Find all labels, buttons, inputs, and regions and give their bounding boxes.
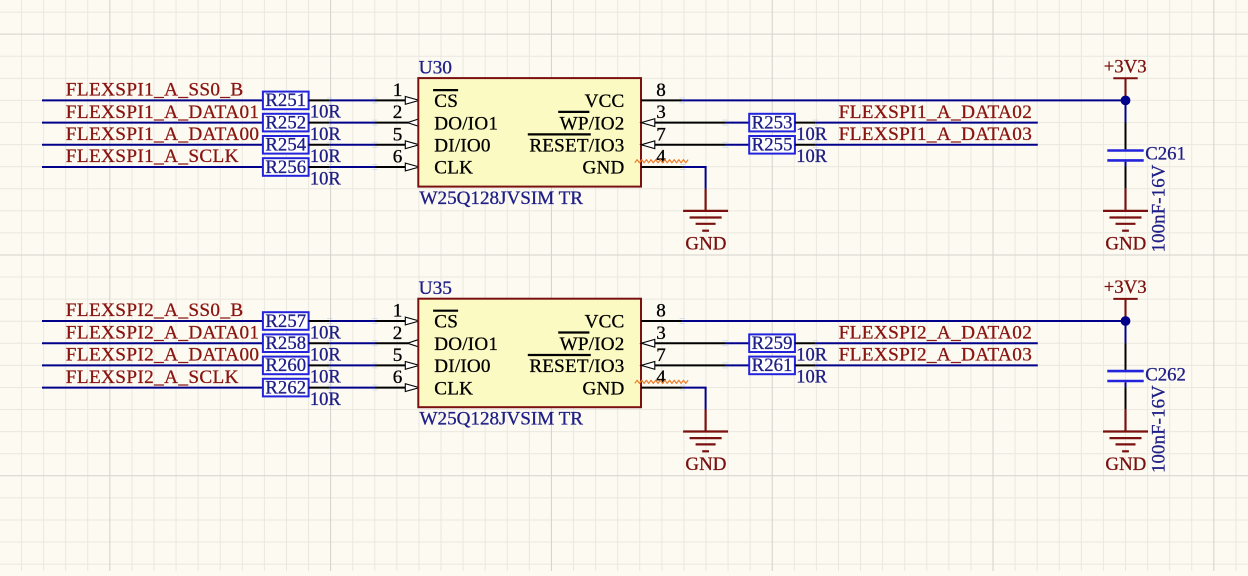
pin of R253 — [795, 122, 816, 124]
svg-text:1: 1 — [393, 301, 403, 322]
resistor R255 10R — [749, 136, 795, 154]
connection tick marks — [327, 142, 332, 147]
pin 6 of U35 — [375, 387, 406, 389]
svg-text:6: 6 — [393, 367, 403, 388]
input pin arrow pin 5 — [405, 141, 419, 149]
svg-text:10R: 10R — [310, 103, 342, 123]
input arrow pin 7 — [641, 362, 655, 370]
pin 2 of C261 — [1125, 167, 1127, 189]
svg-text:GND: GND — [583, 158, 625, 179]
pin 2 of C262 — [1125, 387, 1127, 409]
pin 1 of C262 — [1125, 343, 1127, 370]
pin of R252 — [309, 122, 330, 124]
input pin arrow pin 6 — [405, 384, 419, 392]
wire to net label — [815, 364, 1037, 366]
pin of R260 — [309, 364, 330, 366]
svg-text:FLEXSPI2_A_DATA00: FLEXSPI2_A_DATA00 — [66, 345, 260, 366]
svg-text:10R: 10R — [310, 147, 342, 167]
svg-text:FLEXSPI1_A_SS0_B: FLEXSPI1_A_SS0_B — [66, 80, 244, 101]
pin of R251 — [309, 99, 330, 101]
pin 6 of U30 — [375, 166, 406, 168]
wire — [330, 364, 375, 366]
wire — [683, 387, 707, 389]
resistor R259 10R — [749, 334, 795, 352]
wire — [330, 122, 375, 124]
svg-text:VCC: VCC — [585, 312, 625, 333]
svg-text:W25Q128JVSIM TR: W25Q128JVSIM TR — [420, 408, 584, 429]
svg-text:CS: CS — [434, 312, 458, 333]
svg-text:R258: R258 — [265, 333, 306, 354]
ground symbol GND — [683, 189, 728, 231]
resistor R256 10R — [263, 158, 309, 176]
pin of R254 — [309, 144, 330, 146]
pin of R262 — [309, 387, 330, 389]
pin 5 of U30 — [375, 144, 406, 146]
svg-text:10R: 10R — [310, 323, 342, 343]
capacitor C261 100nF-16V — [1107, 149, 1143, 152]
svg-text:R259: R259 — [752, 333, 793, 354]
pin 5 of U35 — [375, 364, 406, 366]
wire stub — [1125, 162, 1127, 167]
svg-text:2: 2 — [393, 323, 403, 344]
svg-text:+3V3: +3V3 — [1104, 57, 1147, 78]
input pin arrow pin 6 — [405, 163, 419, 171]
svg-text:100nF-16V: 100nF-16V — [1149, 164, 1170, 252]
svg-text:WP/IO2: WP/IO2 — [560, 334, 625, 355]
connection tick marks — [722, 142, 727, 147]
svg-text:W25Q128JVSIM TR: W25Q128JVSIM TR — [420, 188, 584, 209]
wire stub — [1125, 382, 1127, 387]
svg-text:DI/IO0: DI/IO0 — [434, 136, 490, 157]
svg-text:CLK: CLK — [434, 158, 473, 179]
connection tick marks — [327, 363, 332, 368]
svg-text:U35: U35 — [419, 278, 452, 299]
svg-text:10R: 10R — [796, 147, 828, 167]
svg-text:FLEXSPI2_A_DATA01: FLEXSPI2_A_DATA01 — [66, 322, 260, 343]
svg-text:FLEXSPI1_A_DATA03: FLEXSPI1_A_DATA03 — [839, 124, 1033, 145]
resistor R262 10R — [263, 379, 309, 397]
wire FLEXSPI2_A_SS0_B to R257 — [42, 320, 263, 322]
resistor R251 10R — [263, 92, 309, 110]
IC U35 W25Q128JVSIM flash — [418, 299, 641, 408]
ground symbol GND — [683, 410, 728, 452]
no-ERC squiggle marker on pin 4 — [635, 380, 688, 383]
svg-text:100nF-16V: 100nF-16V — [1149, 385, 1170, 473]
wire — [330, 166, 375, 168]
connection tick mark — [680, 165, 685, 170]
pin of R258 — [309, 342, 330, 344]
svg-text:10R: 10R — [310, 368, 342, 388]
input arrow pin 7 — [641, 141, 655, 149]
svg-text:R260: R260 — [265, 355, 306, 376]
svg-text:C262: C262 — [1145, 364, 1186, 385]
wire junction to capacitor — [1125, 100, 1127, 122]
svg-text:8: 8 — [656, 80, 666, 101]
svg-text:R262: R262 — [265, 377, 306, 398]
junction dot — [1121, 96, 1131, 106]
connection tick marks — [327, 165, 332, 170]
svg-text:C261: C261 — [1145, 144, 1186, 165]
svg-text:5: 5 — [393, 345, 403, 366]
connection tick mark — [680, 385, 685, 390]
svg-text:RESET/IO3: RESET/IO3 — [529, 356, 624, 377]
svg-text:R261: R261 — [752, 355, 793, 376]
svg-text:FLEXSPI2_A_DATA02: FLEXSPI2_A_DATA02 — [839, 322, 1033, 343]
connection tick marks — [722, 363, 727, 368]
svg-text:DO/IO1: DO/IO1 — [434, 113, 498, 134]
svg-text:FLEXSPI1_A_DATA01: FLEXSPI1_A_DATA01 — [66, 102, 260, 123]
wire to net label — [815, 342, 1037, 344]
capacitor C262 100nF-16V — [1107, 370, 1143, 373]
svg-text:7: 7 — [656, 124, 666, 145]
input pin arrow pin 5 — [405, 362, 419, 370]
pin of R259 — [795, 342, 816, 344]
input pin arrow pin 1 — [405, 317, 419, 325]
svg-text:FLEXSPI2_A_SCLK: FLEXSPI2_A_SCLK — [66, 367, 239, 388]
svg-text:7: 7 — [656, 345, 666, 366]
input pin arrow pin 1 — [405, 97, 419, 105]
wire junction to capacitor — [1125, 321, 1127, 343]
resistor R261 10R — [749, 357, 795, 375]
svg-text:CLK: CLK — [434, 378, 473, 399]
wire FLEXSPI1_A_SS0_B to R251 — [42, 99, 263, 101]
wire FLEXSPI1_A_SCLK to R256 — [42, 166, 263, 168]
pin 2 of U30 — [375, 122, 408, 124]
pin of R261 — [795, 364, 816, 366]
wire FLEXSPI2_A_SCLK to R262 — [42, 387, 263, 389]
pin line — [655, 144, 725, 146]
pin line — [655, 342, 725, 344]
wire down to ground — [705, 388, 707, 410]
svg-text:FLEXSPI1_A_SCLK: FLEXSPI1_A_SCLK — [66, 146, 239, 167]
resistor R254 10R — [263, 136, 309, 154]
wire — [330, 387, 375, 389]
pin 8 VCC — [641, 99, 682, 101]
wire FLEXSPI2_A_DATA01 to R258 — [42, 342, 263, 344]
svg-text:VCC: VCC — [585, 91, 625, 112]
svg-text:1: 1 — [393, 80, 403, 101]
svg-text:R251: R251 — [265, 90, 306, 111]
wire to net label — [815, 122, 1037, 124]
svg-text:4: 4 — [656, 367, 666, 388]
pin 1 of C261 — [1125, 123, 1127, 150]
svg-text:2: 2 — [393, 102, 403, 123]
connection tick marks — [327, 120, 332, 125]
svg-text:R254: R254 — [265, 135, 306, 156]
svg-text:3: 3 — [656, 323, 666, 344]
svg-text:CS: CS — [434, 91, 458, 112]
svg-text:4: 4 — [656, 147, 666, 168]
connection tick mark — [679, 98, 684, 103]
connection tick marks — [327, 385, 332, 390]
svg-text:10R: 10R — [310, 346, 342, 366]
svg-text:GND: GND — [685, 454, 726, 475]
IC U30 W25Q128JVSIM flash — [418, 78, 641, 187]
svg-text:WP/IO2: WP/IO2 — [560, 113, 625, 134]
pin 8 VCC — [641, 320, 682, 322]
pin 4 GND — [641, 166, 683, 168]
svg-text:FLEXSPI1_A_DATA00: FLEXSPI1_A_DATA00 — [66, 124, 260, 145]
connection tick marks — [327, 319, 332, 324]
svg-text:R255: R255 — [752, 135, 793, 156]
svg-text:R253: R253 — [752, 112, 793, 133]
pin of R255 — [795, 144, 816, 146]
svg-text:10R: 10R — [796, 125, 828, 145]
svg-text:RESET/IO3: RESET/IO3 — [529, 136, 624, 157]
svg-text:10R: 10R — [796, 368, 828, 388]
svg-text:10R: 10R — [310, 390, 342, 410]
wire FLEXSPI2_A_DATA00 to R260 — [42, 364, 263, 366]
svg-text:FLEXSPI2_A_SS0_B: FLEXSPI2_A_SS0_B — [66, 300, 244, 321]
svg-text:GND: GND — [1105, 454, 1146, 475]
svg-text:R257: R257 — [265, 311, 306, 332]
svg-text:R252: R252 — [265, 112, 306, 133]
pin line — [655, 122, 725, 124]
svg-text:GND: GND — [583, 378, 625, 399]
connection tick marks — [722, 120, 727, 125]
pin 1 of U30 — [375, 99, 406, 101]
svg-text:DO/IO1: DO/IO1 — [434, 334, 498, 355]
resistor R257 10R — [263, 312, 309, 330]
svg-text:8: 8 — [656, 301, 666, 322]
junction dot — [1121, 316, 1131, 326]
svg-text:FLEXSPI2_A_DATA03: FLEXSPI2_A_DATA03 — [839, 345, 1033, 366]
resistor R258 10R — [263, 334, 309, 352]
resistor R253 10R — [749, 114, 795, 132]
svg-text:+3V3: +3V3 — [1104, 277, 1147, 298]
svg-text:3: 3 — [656, 102, 666, 123]
svg-text:10R: 10R — [796, 346, 828, 366]
connection tick marks — [722, 341, 727, 346]
svg-text:10R: 10R — [310, 125, 342, 145]
wire down to ground — [705, 167, 707, 189]
svg-text:10R: 10R — [310, 169, 342, 189]
svg-text:5: 5 — [393, 124, 403, 145]
wire FLEXSPI1_A_DATA00 to R254 — [42, 144, 263, 146]
svg-text:GND: GND — [1105, 233, 1146, 254]
connection tick marks — [327, 98, 332, 103]
wire — [330, 342, 375, 344]
svg-text:R256: R256 — [265, 157, 306, 178]
wire — [725, 342, 749, 344]
svg-text:U30: U30 — [419, 58, 452, 79]
wire — [725, 144, 749, 146]
wire — [683, 166, 707, 168]
wire VCC to +3V3 rail — [682, 320, 1125, 322]
input arrow pin 3 — [641, 339, 655, 347]
pin 2 of U35 — [375, 342, 408, 344]
output pin arrow pin 2 — [407, 339, 419, 347]
input arrow pin 3 — [641, 119, 655, 127]
wire — [725, 364, 749, 366]
pin of R257 — [309, 320, 330, 322]
no-ERC squiggle marker on pin 4 — [635, 160, 688, 163]
wire VCC to +3V3 rail — [682, 99, 1125, 101]
resistor R260 10R — [263, 357, 309, 375]
wire to net label — [815, 144, 1037, 146]
pin line — [655, 364, 725, 366]
wire — [330, 144, 375, 146]
wire — [330, 320, 375, 322]
ground symbol GND under capacitor — [1103, 189, 1148, 231]
svg-text:FLEXSPI1_A_DATA02: FLEXSPI1_A_DATA02 — [839, 102, 1033, 123]
wire — [725, 122, 749, 124]
wire — [330, 99, 375, 101]
resistor R252 10R — [263, 114, 309, 132]
pin of R256 — [309, 166, 330, 168]
connection tick mark — [679, 319, 684, 324]
pin 4 GND — [641, 387, 683, 389]
connection tick marks — [327, 341, 332, 346]
svg-text:6: 6 — [393, 147, 403, 168]
ground symbol GND under capacitor — [1103, 409, 1148, 451]
svg-text:GND: GND — [685, 233, 726, 254]
output pin arrow pin 2 — [407, 119, 419, 127]
wire FLEXSPI1_A_DATA01 to R252 — [42, 122, 263, 124]
pin 1 of U35 — [375, 320, 406, 322]
svg-text:DI/IO0: DI/IO0 — [434, 356, 490, 377]
